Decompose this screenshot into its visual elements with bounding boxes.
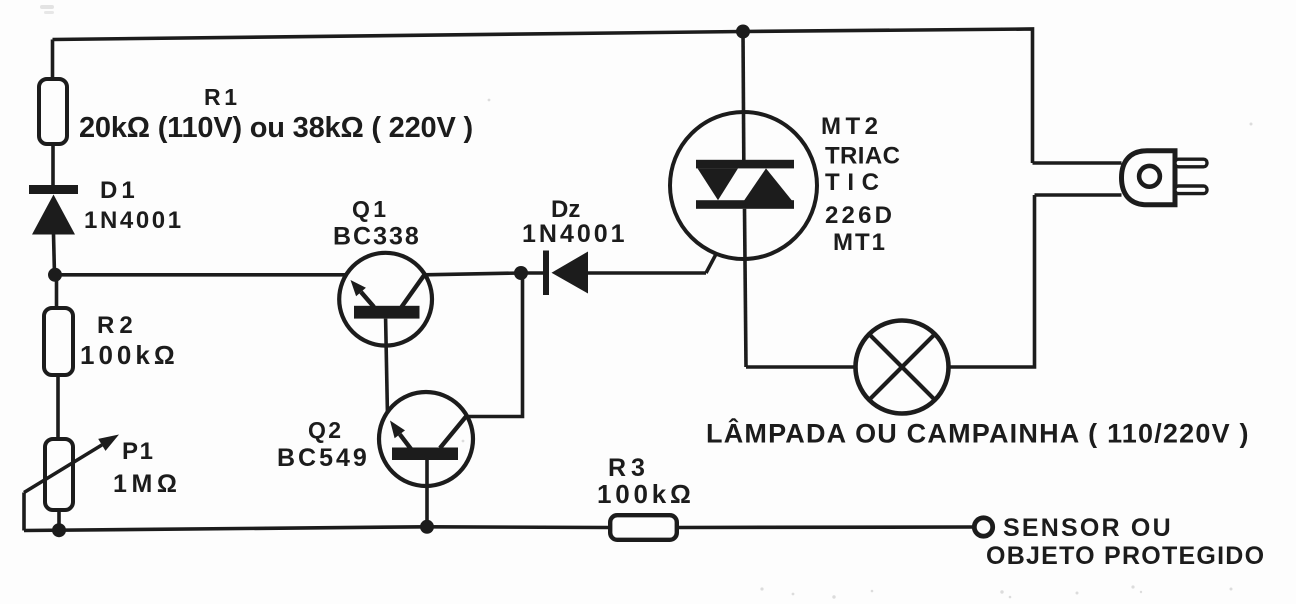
wire node A horizontal to Q1 emitter [55,273,349,277]
svg-text:1N4001: 1N4001 [522,220,628,248]
svg-text:BC549: BC549 [277,444,370,472]
wire R1 to D1 [51,146,55,185]
wire node A to R2 [55,275,59,306]
svg-text:Q1: Q1 [352,196,389,222]
resistor R3 [610,515,677,540]
wire D1 to node A [54,234,55,275]
junction Q2 base node [420,520,434,534]
svg-text:R2: R2 [97,312,138,339]
terminal sensor [974,518,992,536]
lamp [856,321,949,414]
svg-text:D1: D1 [100,177,139,204]
resistor R2 [44,308,73,375]
svg-text:SENSOR OU: SENSOR OU [1003,514,1173,542]
wire R2 to P1 [56,377,60,437]
wire gate diagonal [706,207,741,273]
svg-text:MT1: MT1 [833,229,887,256]
wire R3 to sensor terminal [679,525,973,529]
transistor Q1 [339,253,432,416]
svg-text:LÂMPADA OU CAMPAINHA ( 110/2: LÂMPADA OU CAMPAINHA ( 110/220V ) [706,418,1250,449]
diode D1 [29,190,78,235]
wire bottom bus left [24,527,427,531]
wire right bus to plug top [1033,161,1122,165]
svg-text:P1: P1 [122,438,155,465]
wire Dz to gate bend [588,271,706,275]
wire triac to lamp [746,365,856,369]
svg-text:100kΩ: 100kΩ [597,479,695,509]
junction top node [736,25,750,39]
resistor R1 [39,79,67,144]
wire lamp to right bus [949,195,1035,367]
svg-text:100kΩ: 100kΩ [80,340,179,370]
plug [1122,151,1208,205]
svg-text:Q2: Q2 [308,417,343,443]
svg-text:20kΩ (110V) ou 38kΩ ( 220V ): 20kΩ (110V) ou 38kΩ ( 220V ) [79,112,473,144]
junction node B [514,266,528,280]
transistor Q2 [379,392,473,527]
svg-text:TRIAC: TRIAC [825,143,900,170]
svg-text:R3: R3 [608,454,650,482]
wire bottom bus to R3 [427,525,608,529]
svg-text:226D: 226D [825,202,895,229]
wire top bus right [743,29,1033,163]
potentiometer P1 [24,435,119,531]
svg-text:Dz: Dz [551,196,580,223]
svg-text:R1: R1 [204,84,241,110]
wire node B down to Q2 collector [466,273,523,417]
svg-text:1MΩ: 1MΩ [113,470,182,498]
wire top-left vertical [51,40,55,79]
wire P1 to bottom bus [57,512,61,531]
svg-text:BC338: BC338 [333,223,421,251]
junction P1 bottom [52,523,66,537]
wire top bus left [53,32,744,40]
wire plug bottom [1035,193,1122,197]
diode Dz [546,251,588,296]
wire node B to Dz [521,271,543,275]
triac TIC226D [670,32,817,368]
wire Q1 collector to node B [424,273,521,275]
svg-text:OBJETO PROTEGIDO: OBJETO PROTEGIDO [986,542,1265,570]
svg-text:T I C: T I C [825,169,880,196]
svg-text:MT2: MT2 [821,113,883,140]
svg-text:1N4001: 1N4001 [84,207,184,234]
junction node A [48,268,62,282]
